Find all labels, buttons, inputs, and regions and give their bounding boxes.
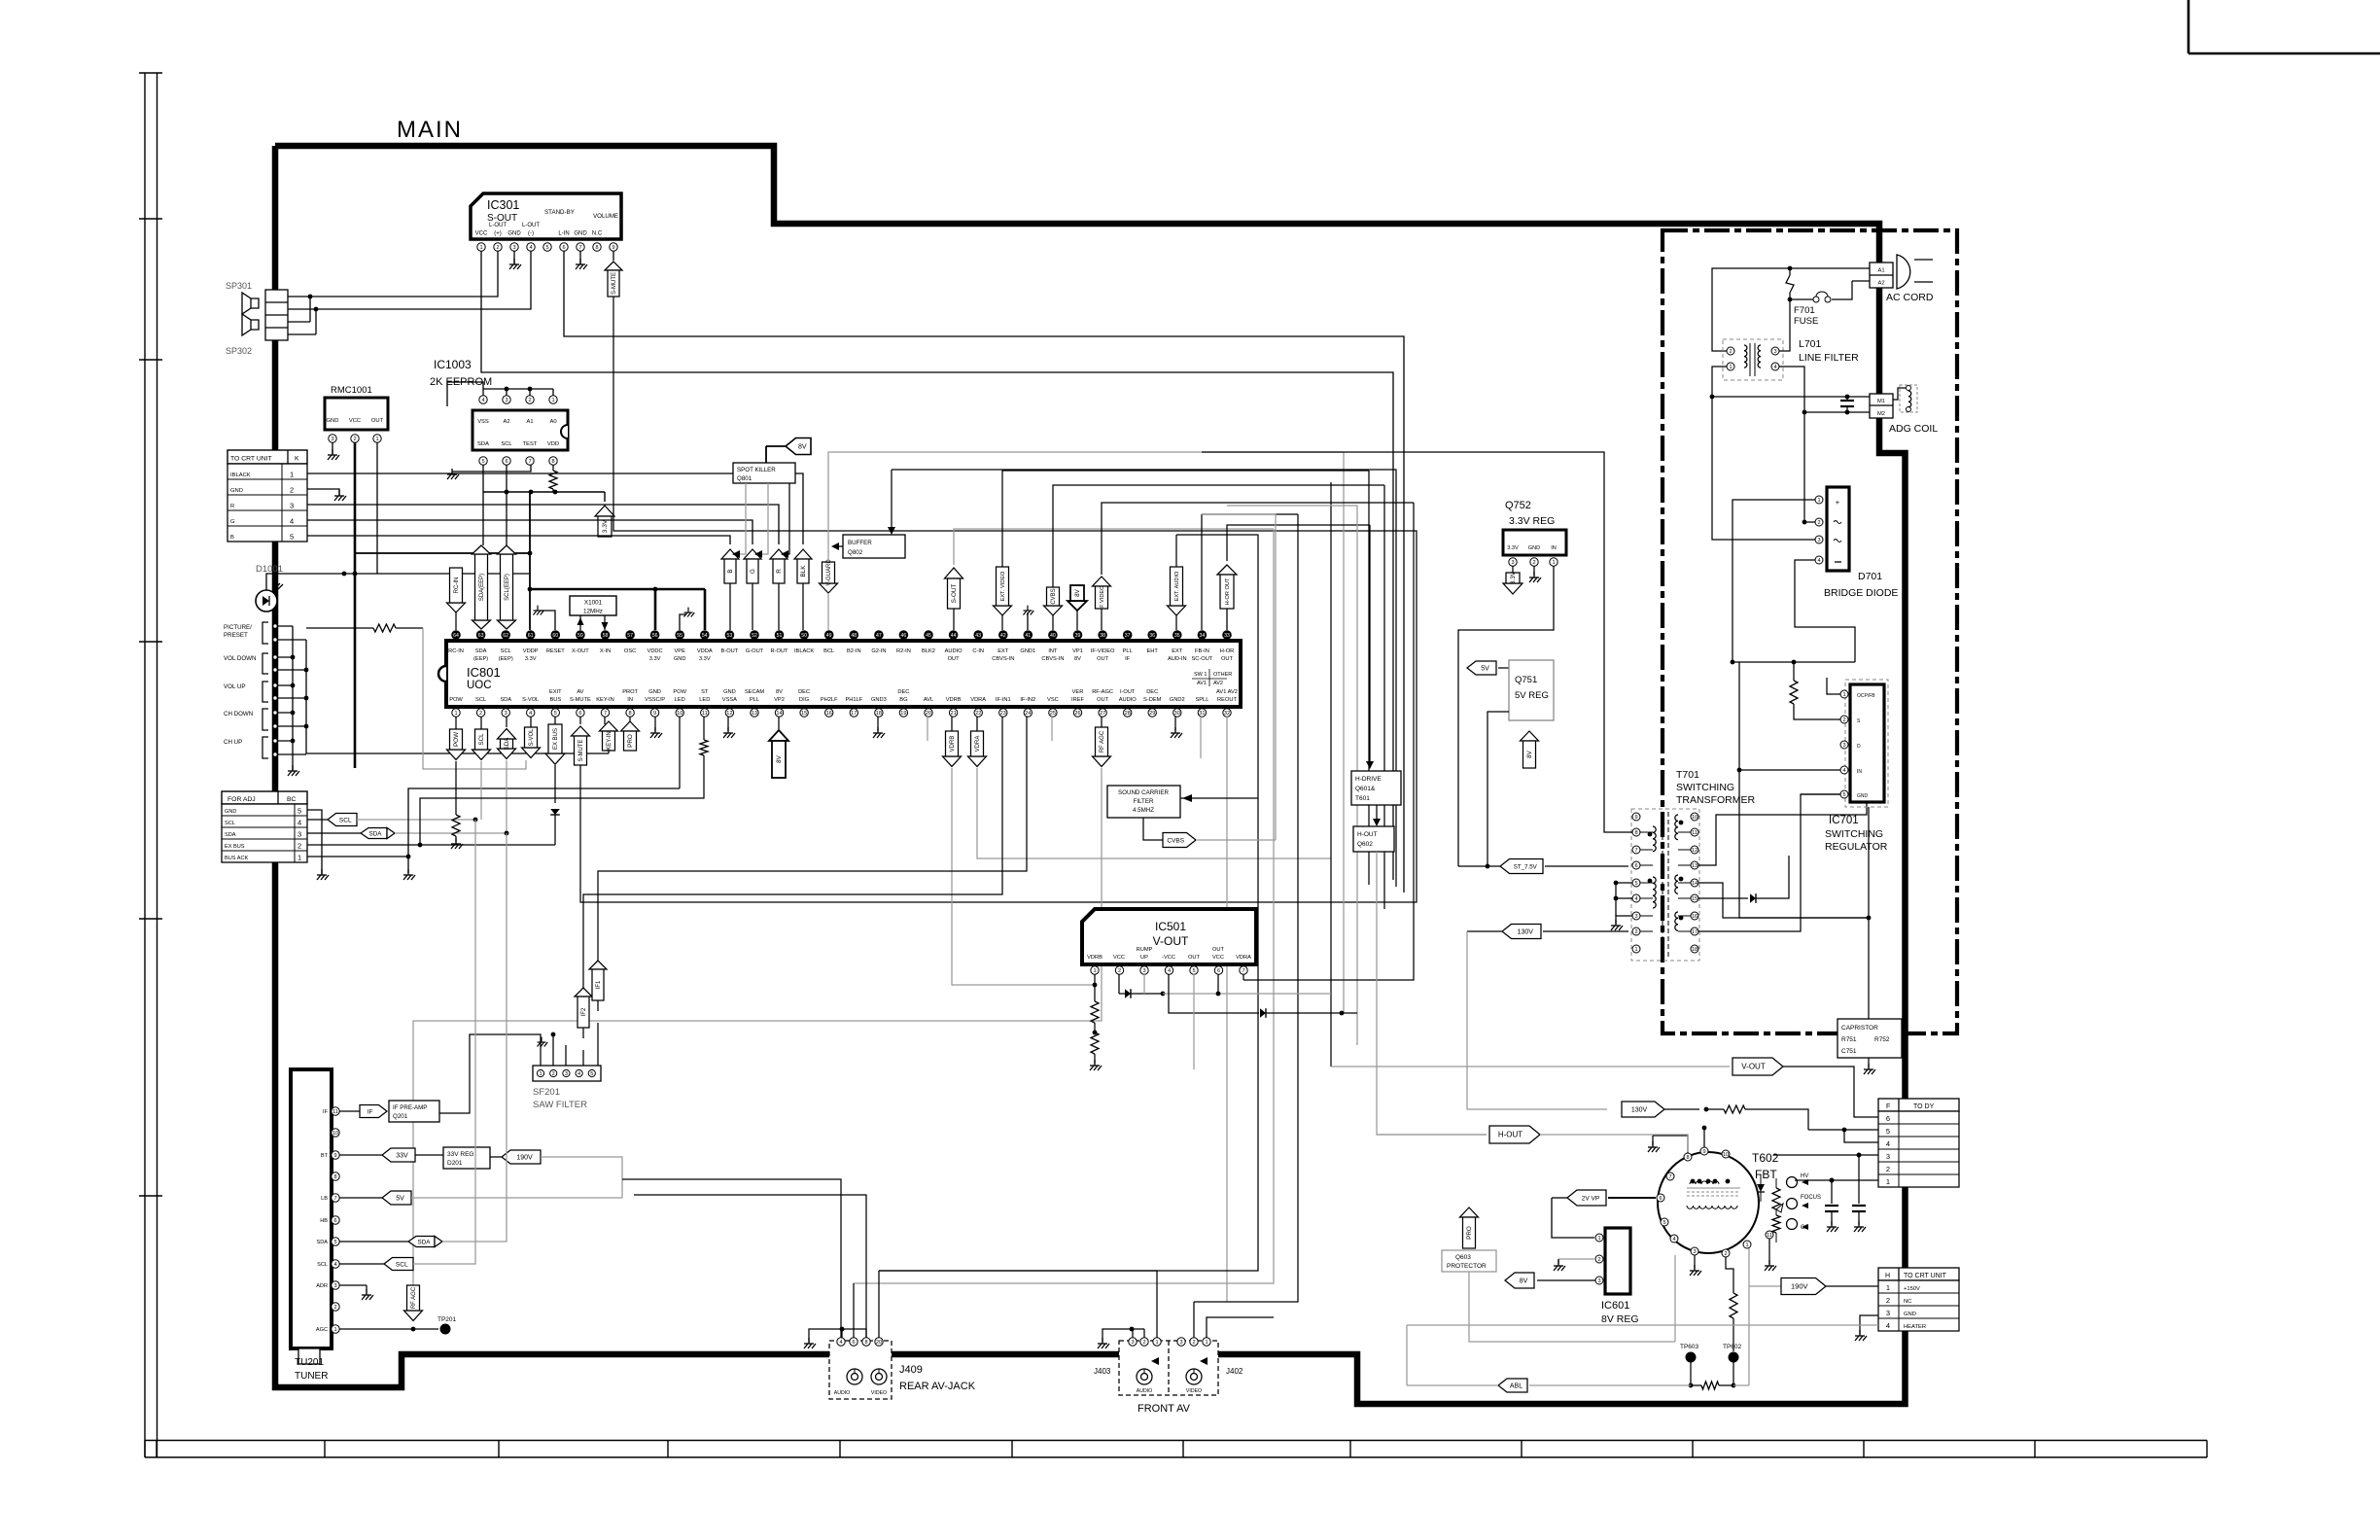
op-amp IC301 S-OUT box xyxy=(471,193,621,239)
svg-text:FOCUS: FOCUS xyxy=(1801,1195,1821,1201)
svg-text:BRIDGE DIODE: BRIDGE DIODE xyxy=(1824,587,1898,599)
wire button bus A xyxy=(292,626,294,771)
front AV arrows xyxy=(1151,1357,1159,1365)
J403 pins xyxy=(1129,1338,1137,1346)
svg-text:4: 4 xyxy=(529,245,532,251)
svg-text:190V: 190V xyxy=(516,1154,533,1161)
svg-text:4: 4 xyxy=(1773,365,1776,370)
svg-text:5V: 5V xyxy=(396,1195,404,1202)
wire buffer left xyxy=(835,545,843,547)
svg-text:1: 1 xyxy=(1729,365,1732,370)
svg-text:BUS: BUS xyxy=(549,697,561,703)
svg-text:A0: A0 xyxy=(549,419,556,425)
ground pin12 xyxy=(727,717,729,731)
svg-text:8: 8 xyxy=(1634,830,1637,836)
wire fbt pin2 down xyxy=(1726,1257,1733,1293)
svg-text:VSC: VSC xyxy=(1047,697,1059,703)
svg-text:F701: F701 xyxy=(1794,305,1815,316)
svg-text:4: 4 xyxy=(1168,968,1171,974)
svg-text:44: 44 xyxy=(951,633,957,639)
svg-text:IF1: IF1 xyxy=(596,980,602,989)
svg-text:2: 2 xyxy=(1886,1165,1890,1173)
svg-text:64: 64 xyxy=(453,633,459,639)
svg-text:R752: R752 xyxy=(1874,1036,1890,1043)
svg-text:UOC: UOC xyxy=(467,680,492,691)
svg-text:A2: A2 xyxy=(1877,281,1884,287)
wire IC701 pin4 in xyxy=(1739,662,1840,770)
Q752 3.3V REG box xyxy=(1503,530,1566,555)
svg-text:(-): (-) xyxy=(528,231,534,237)
svg-text:GND: GND xyxy=(230,488,243,494)
svg-text:J409: J409 xyxy=(899,1364,923,1376)
svg-text:REAR AV-JACK: REAR AV-JACK xyxy=(899,1381,976,1392)
svg-text:3.3V: 3.3V xyxy=(525,656,537,662)
svg-text:IREF: IREF xyxy=(1071,697,1084,703)
wire T701 pin17 xyxy=(1698,794,1840,931)
svg-text:2: 2 xyxy=(1842,717,1845,723)
svg-text:SDA: SDA xyxy=(477,441,489,447)
svg-text:AV1: AV1 xyxy=(1197,681,1207,686)
svg-text:4: 4 xyxy=(297,819,301,827)
svg-text:GND: GND xyxy=(1857,793,1869,799)
svg-text:S-VOL: S-VOL xyxy=(522,697,539,703)
tag 8V (pin39) xyxy=(1067,601,1087,611)
svg-text:KEY-IN: KEY-IN xyxy=(607,731,612,750)
svg-text:A1: A1 xyxy=(1877,268,1884,274)
tag 5V (Q751) xyxy=(1467,661,1496,675)
svg-text:X-IN: X-IN xyxy=(600,648,611,654)
svg-text:1: 1 xyxy=(290,471,294,479)
IC601 box xyxy=(1605,1228,1630,1294)
wire spot killer down1 xyxy=(734,483,746,554)
tag KEY-IN xyxy=(604,717,606,724)
svg-text:L-OUT: L-OUT xyxy=(522,223,540,228)
resistor IC701 fb xyxy=(1793,662,1795,681)
sound carrier filter box xyxy=(1107,786,1180,818)
svg-text:D: D xyxy=(1857,744,1861,750)
IC701 pins xyxy=(1840,690,1848,698)
ground pin18 xyxy=(877,717,879,731)
wire CRT R xyxy=(307,505,779,544)
svg-text:GND2: GND2 xyxy=(1170,697,1185,703)
svg-text:SWITCHING: SWITCHING xyxy=(1676,782,1734,793)
svg-text:ABL: ABL xyxy=(1510,1382,1522,1389)
svg-text:PICTURE/: PICTURE/ xyxy=(224,624,252,631)
wire X1001 left xyxy=(579,615,581,630)
J409 jacks xyxy=(847,1369,862,1384)
svg-text:2: 2 xyxy=(1118,968,1121,974)
svg-text:5: 5 xyxy=(590,1071,593,1077)
ground fbt top xyxy=(1652,1136,1654,1145)
wire EX BUS net xyxy=(307,844,555,846)
svg-text:9: 9 xyxy=(333,1153,336,1159)
wire L701 p3-fuse xyxy=(1779,299,1790,351)
spark gap xyxy=(1786,275,1794,293)
svg-text:Q603: Q603 xyxy=(1455,1254,1471,1261)
svg-text:INT: INT xyxy=(1048,648,1058,654)
D701 bridge diode box xyxy=(1827,487,1849,571)
wire RMC1001 VCC (thick) xyxy=(354,442,357,768)
M1 M2 box xyxy=(1870,394,1893,418)
svg-text:2: 2 xyxy=(552,1071,555,1077)
svg-text:D201: D201 xyxy=(447,1160,463,1167)
svg-text:H-OUT: H-OUT xyxy=(1498,1130,1522,1138)
svg-text:J402: J402 xyxy=(1226,1367,1243,1376)
svg-text:DIG: DIG xyxy=(799,697,809,703)
wire SDA net xyxy=(395,832,507,834)
svg-text:PRO: PRO xyxy=(1466,1226,1473,1240)
svg-text:Q801: Q801 xyxy=(737,475,752,482)
svg-text:8V: 8V xyxy=(1520,1277,1528,1284)
tag S-OUT xyxy=(945,568,963,578)
svg-text:VSS: VSS xyxy=(477,419,489,425)
svg-text:1: 1 xyxy=(454,711,457,717)
svg-text:14: 14 xyxy=(1692,881,1697,887)
wire CRT G xyxy=(307,520,752,544)
svg-text:9: 9 xyxy=(612,245,614,251)
svg-text:4: 4 xyxy=(333,1262,336,1268)
S-MUTE arrow tag at IC301 pin9 xyxy=(612,251,614,261)
svg-text:33V: 33V xyxy=(396,1152,408,1159)
svg-text:PH1LF: PH1LF xyxy=(845,697,862,703)
svg-text:1: 1 xyxy=(1886,1283,1890,1292)
svg-text:2: 2 xyxy=(1192,1340,1195,1346)
svg-text:X1001: X1001 xyxy=(584,600,603,607)
svg-text:58: 58 xyxy=(603,633,609,639)
Q752 pins xyxy=(1509,558,1517,566)
svg-text:10: 10 xyxy=(332,1131,338,1137)
svg-text:CH UP: CH UP xyxy=(224,739,242,746)
svg-text:3.3V REG: 3.3V REG xyxy=(1509,515,1555,527)
wire fbt4 down xyxy=(1674,1242,1675,1255)
D701 pins xyxy=(1815,496,1823,504)
svg-text:DEC: DEC xyxy=(798,689,810,695)
svg-text:62: 62 xyxy=(503,633,508,639)
svg-text:57: 57 xyxy=(627,633,633,639)
svg-text:1: 1 xyxy=(539,1071,542,1077)
svg-text:3: 3 xyxy=(1693,1249,1696,1255)
tag 130V right xyxy=(1503,1108,1607,1110)
svg-text:3: 3 xyxy=(1817,538,1820,543)
svg-text:T601: T601 xyxy=(1355,795,1370,802)
wire A1 net xyxy=(1790,267,1870,269)
svg-text:OUT: OUT xyxy=(1188,955,1201,961)
wire IC501 pin7 xyxy=(1242,974,1244,980)
tag PRO (pin8) xyxy=(629,717,631,724)
svg-text:32: 32 xyxy=(1224,711,1230,717)
LED D1001 xyxy=(256,590,277,612)
wire CRT GND xyxy=(307,489,339,496)
svg-text:DEC: DEC xyxy=(897,689,909,695)
svg-text:GND: GND xyxy=(574,231,587,237)
svg-text:SWITCHING: SWITCHING xyxy=(1825,828,1883,840)
svg-text:-VCC: -VCC xyxy=(1162,955,1175,961)
wire J403 pin1 up xyxy=(879,1271,1157,1338)
svg-text:IN: IN xyxy=(1551,545,1557,551)
svg-text:SCL: SCL xyxy=(396,1261,408,1268)
svg-text:16: 16 xyxy=(826,711,832,717)
svg-text:VER: VER xyxy=(1072,689,1084,695)
IC701 outer dashed xyxy=(1845,680,1888,807)
focus resistor xyxy=(1772,1188,1780,1209)
speaker connector block xyxy=(265,290,288,340)
svg-text:21: 21 xyxy=(950,711,956,717)
Q751 5V REG box xyxy=(1509,660,1554,720)
svg-text:5V: 5V xyxy=(1481,665,1489,672)
svg-text:SDA(EEP): SDA(EEP) xyxy=(479,574,485,601)
svg-text:11: 11 xyxy=(332,1109,338,1115)
IC701 box xyxy=(1850,684,1884,802)
svg-text:G-OUT: G-OUT xyxy=(746,648,764,654)
svg-text:1: 1 xyxy=(1817,498,1820,504)
svg-text:IF VIDEO: IF VIDEO xyxy=(1100,585,1105,610)
svg-text:OSC: OSC xyxy=(624,648,636,654)
svg-text:5: 5 xyxy=(290,533,294,542)
wire SCF right xyxy=(1180,797,1258,799)
svg-text:IF: IF xyxy=(1125,656,1131,662)
svg-text:3.3V: 3.3V xyxy=(699,656,711,662)
svg-text:9: 9 xyxy=(1634,815,1637,821)
svg-text:S-DEM: S-DEM xyxy=(1143,697,1162,703)
svg-text:R: R xyxy=(776,569,783,574)
svg-text:2: 2 xyxy=(496,245,499,251)
tag SDA(EEP) xyxy=(472,620,491,629)
svg-text:KEY-IN: KEY-IN xyxy=(596,697,613,703)
ADG coil xyxy=(1900,385,1917,412)
svg-text:EXT: EXT xyxy=(1172,648,1183,654)
svg-text:5: 5 xyxy=(297,807,301,816)
svg-text:RESET: RESET xyxy=(546,648,565,654)
svg-text:1: 1 xyxy=(1597,1236,1600,1242)
connector table F TO DY xyxy=(1878,1099,1959,1111)
svg-text:30: 30 xyxy=(1174,711,1180,717)
T701 pins xyxy=(1632,813,1640,821)
svg-text:3: 3 xyxy=(565,1071,568,1077)
svg-text:3: 3 xyxy=(1886,1309,1890,1317)
svg-text:CAPRISTOR: CAPRISTOR xyxy=(1841,1025,1878,1032)
svg-text:ST: ST xyxy=(701,689,709,695)
svg-text:S-OUT: S-OUT xyxy=(951,584,958,604)
wire IC501 pin1 xyxy=(1094,974,1096,985)
ground pin30 xyxy=(1174,717,1176,731)
IC501 pins 1-7 xyxy=(1091,966,1099,974)
G2 terminal xyxy=(1787,1219,1798,1230)
wire T701 pin14 xyxy=(1698,883,1869,918)
IC1003 bottom pins xyxy=(479,457,487,465)
svg-text:SCL: SCL xyxy=(478,733,485,746)
svg-text:TU201: TU201 xyxy=(295,1357,324,1368)
svg-text:6: 6 xyxy=(578,711,581,717)
svg-text:29: 29 xyxy=(1149,711,1155,717)
svg-text:M1: M1 xyxy=(1877,399,1885,404)
svg-text:8V: 8V xyxy=(1074,656,1081,662)
svg-text:+150V: +150V xyxy=(1904,1286,1920,1292)
J402 pins xyxy=(1177,1338,1185,1346)
wire X1001 right xyxy=(604,615,606,630)
svg-text:TEST: TEST xyxy=(523,441,538,447)
svg-text:54: 54 xyxy=(702,633,708,639)
fuse F701 xyxy=(1852,280,1870,282)
svg-text:RC-IN: RC-IN xyxy=(454,577,460,594)
svg-text:IC701: IC701 xyxy=(1829,815,1859,826)
svg-text:TO CRT UNIT: TO CRT UNIT xyxy=(230,456,272,463)
3.3V arrow tag xyxy=(595,506,614,516)
svg-text:8: 8 xyxy=(1686,1155,1689,1161)
svg-text:POW: POW xyxy=(673,689,686,695)
wire pin31 stub xyxy=(1200,717,1202,758)
svg-text:SCL(EEP): SCL(EEP) xyxy=(505,574,510,601)
svg-text:FUSE: FUSE xyxy=(1794,316,1818,327)
tag G xyxy=(744,549,761,559)
svg-text:B: B xyxy=(727,569,734,573)
svg-text:SCL: SCL xyxy=(475,697,486,703)
svg-text:FILTER: FILTER xyxy=(1134,798,1154,805)
svg-text:51: 51 xyxy=(777,633,783,639)
svg-text:RF AGC: RF AGC xyxy=(411,1286,417,1309)
svg-text:IF PRE-AMP: IF PRE-AMP xyxy=(393,1104,427,1111)
svg-text:5: 5 xyxy=(1192,968,1195,974)
wire 3.3V node xyxy=(483,491,605,493)
svg-text:VCC: VCC xyxy=(1212,955,1224,961)
ground Q752 pin2 xyxy=(1533,566,1535,576)
T701 windings left xyxy=(1653,826,1656,832)
wire spot killer down2 xyxy=(756,483,768,554)
svg-text:EXT. AUDIO: EXT. AUDIO xyxy=(1174,571,1180,601)
svg-text:SP301: SP301 xyxy=(226,281,252,291)
FOCUS terminal xyxy=(1787,1199,1798,1209)
svg-text:+: + xyxy=(1836,498,1840,507)
svg-text:3: 3 xyxy=(1179,1340,1182,1346)
wire bus v1424 xyxy=(1383,485,1385,909)
tag H-OR OUT xyxy=(1217,565,1237,575)
wire into H-DRIVE xyxy=(1369,525,1371,765)
svg-text:SCL: SCL xyxy=(501,441,512,447)
svg-text:SP302: SP302 xyxy=(226,346,252,356)
wire bus v1312 cvbs xyxy=(1202,514,1276,840)
svg-text:3: 3 xyxy=(1131,1340,1134,1346)
wire H-DRIVE to H-OUT xyxy=(1376,805,1378,824)
ground J409 xyxy=(809,1329,842,1342)
svg-text:RF-AGC: RF-AGC xyxy=(1092,689,1113,695)
svg-text:2: 2 xyxy=(1886,1296,1890,1305)
wire S-MUTE net xyxy=(580,297,1417,902)
svg-text:10: 10 xyxy=(1723,1152,1729,1158)
ground pin9 xyxy=(654,717,656,731)
MAIN board outline (thick) xyxy=(275,146,1906,1404)
svg-text:14: 14 xyxy=(776,711,782,717)
svg-text:ADR: ADR xyxy=(316,1283,328,1289)
svg-text:24: 24 xyxy=(1025,711,1031,717)
wire IC501 pin3 xyxy=(1143,974,1145,994)
wire RMC VCC to 3.3V xyxy=(355,552,530,554)
svg-text:8V: 8V xyxy=(798,443,807,450)
svg-text:37: 37 xyxy=(1125,633,1131,639)
tag SDA (pin3) xyxy=(506,717,507,727)
svg-text:1: 1 xyxy=(297,854,301,862)
svg-text:(+): (+) xyxy=(494,231,502,237)
svg-text:SAW FILTER: SAW FILTER xyxy=(533,1100,587,1110)
svg-text:AUDIO: AUDIO xyxy=(945,648,963,654)
svg-text:R2-IN: R2-IN xyxy=(896,648,911,654)
svg-text:OUT: OUT xyxy=(1097,656,1109,662)
wire T701 pin13 xyxy=(1698,745,1867,865)
svg-text:PROT: PROT xyxy=(622,689,638,695)
svg-text:EXT: EXT xyxy=(997,648,1009,654)
svg-text:AV2: AV2 xyxy=(1213,681,1223,686)
svg-text:CVBS: CVBS xyxy=(1167,837,1184,844)
svg-text:TRANSFORMER: TRANSFORMER xyxy=(1676,794,1756,806)
HV terminal xyxy=(1787,1177,1798,1188)
svg-text:1: 1 xyxy=(1842,692,1845,698)
wire IC301 pin1 long xyxy=(481,251,1393,880)
tag VDRA xyxy=(976,717,978,731)
svg-text:4: 4 xyxy=(529,711,532,717)
wire T701 pin8 xyxy=(1202,452,1632,832)
resistor key ladder xyxy=(306,627,373,629)
page border left double line xyxy=(144,73,146,1457)
svg-text:18: 18 xyxy=(876,711,882,717)
svg-text:27: 27 xyxy=(1100,711,1105,717)
svg-text:8V REG: 8V REG xyxy=(1601,1313,1639,1325)
ground at IC301 pin7 xyxy=(579,251,581,264)
svg-text:BLK2: BLK2 xyxy=(922,648,935,654)
svg-text:EX BUS: EX BUS xyxy=(225,844,245,850)
wire pin20 stub xyxy=(927,717,928,741)
svg-text:4: 4 xyxy=(1886,1139,1890,1148)
svg-text:6: 6 xyxy=(333,1218,336,1224)
svg-text:LED: LED xyxy=(699,697,710,703)
svg-text:35: 35 xyxy=(1174,633,1180,639)
wire IC1003 SDA down xyxy=(482,465,484,545)
wire D1001 to RC-IN xyxy=(266,574,529,590)
svg-text:3.3V: 3.3V xyxy=(1510,571,1517,584)
svg-text:OUT: OUT xyxy=(948,656,961,662)
T701 dashed outline xyxy=(1631,809,1699,961)
svg-text:DEC: DEC xyxy=(1146,689,1158,695)
svg-text:Q802: Q802 xyxy=(848,549,863,556)
H-DRIVE Q601 box xyxy=(1351,771,1401,805)
svg-text:5: 5 xyxy=(333,1240,336,1245)
svg-text:SDA: SDA xyxy=(500,697,511,703)
svg-text:9: 9 xyxy=(1702,1149,1705,1155)
wire IC501 pin2 diode xyxy=(1118,974,1120,994)
svg-text:3: 3 xyxy=(505,398,507,403)
svg-text:61: 61 xyxy=(528,633,534,639)
IC501 V-OUT box xyxy=(1082,909,1256,964)
svg-text:SDA: SDA xyxy=(316,1240,328,1245)
wire IC501 pin5 xyxy=(1193,974,1195,1069)
RMC1001 pins xyxy=(329,435,336,442)
tag CVBS xyxy=(1044,606,1063,615)
tag SCL (table) xyxy=(307,819,328,821)
svg-text:12: 12 xyxy=(726,711,732,717)
svg-text:POW: POW xyxy=(453,732,460,747)
ground GND1 pin41 xyxy=(1027,612,1029,630)
connector table TO CRT UNIT K xyxy=(227,450,307,464)
svg-text:5: 5 xyxy=(554,711,557,717)
wire bus v1408 xyxy=(1368,471,1370,885)
svg-text:G: G xyxy=(750,569,756,574)
tag RF-AGC xyxy=(1101,717,1102,727)
svg-text:8: 8 xyxy=(864,1340,867,1346)
wire bus v1454 xyxy=(1243,503,1414,980)
wire Q752 IN xyxy=(1458,566,1554,866)
svg-text:10: 10 xyxy=(677,711,682,717)
svg-text:18: 18 xyxy=(1692,947,1697,953)
svg-text:IC601: IC601 xyxy=(1601,1300,1629,1312)
svg-text:IN: IN xyxy=(627,697,633,703)
svg-text:4: 4 xyxy=(577,1071,580,1077)
